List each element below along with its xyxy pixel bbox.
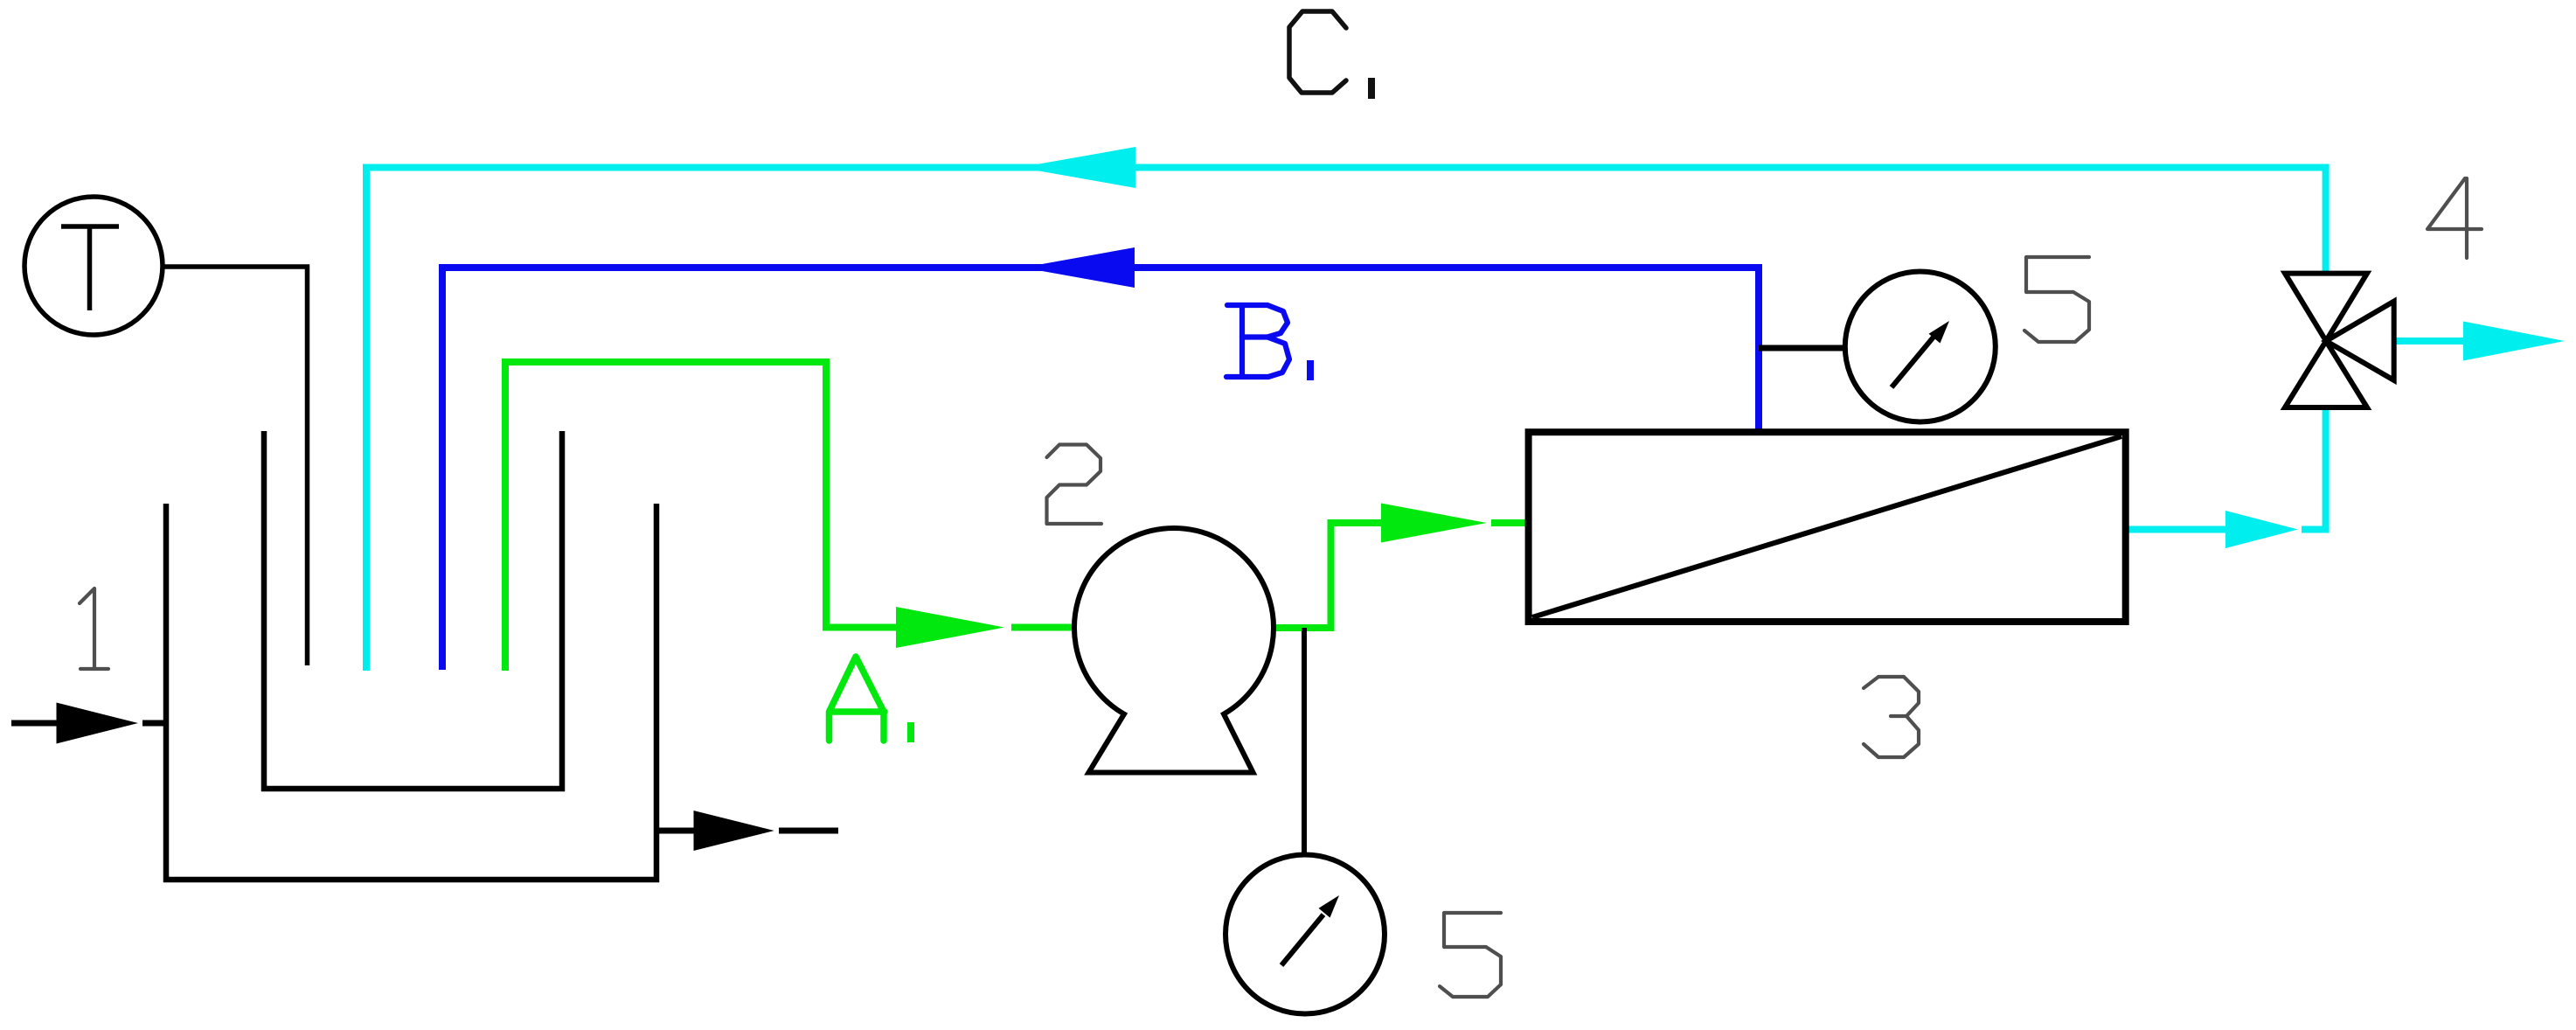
- label 4 (grey): [2427, 178, 2482, 258]
- inlet line into tank: [11, 720, 61, 727]
- valve 4 bottom triangle: [2285, 341, 2367, 407]
- wire: outlet stub after arrow: [779, 828, 838, 834]
- needle of top gauge: [1892, 335, 1935, 387]
- label 3 (grey): [1864, 677, 1919, 757]
- outlet line from tank: [656, 828, 694, 834]
- label A, (green): [830, 657, 885, 741]
- arrow on blue B line (pointing left): [1023, 247, 1135, 288]
- label 1 (grey): [80, 588, 108, 669]
- arrow outlet (pointing right): [694, 811, 774, 851]
- arrow green into membrane: [1381, 504, 1487, 543]
- label 5 top (grey): [2024, 257, 2089, 342]
- temperature gauge T1 circle: [24, 197, 163, 335]
- label C, (black): [1289, 11, 1346, 93]
- wire: green pump outlet to membrane: [1272, 523, 1381, 628]
- pump 2 body (circle with legs): [1074, 528, 1274, 773]
- valve 4 (three-way) top triangle: [2285, 274, 2367, 341]
- wire: green segment into membrane: [1491, 519, 1532, 526]
- wire: black connector from T gauge into tank (dip tube): [163, 267, 308, 665]
- wire: cyan permeate line membrane right to valve bottom: [2126, 526, 2225, 533]
- wire: black connector from blue line to top gauge: [1759, 345, 1845, 351]
- wire: cyan corner up into valve bottom: [2302, 407, 2326, 530]
- pressure gauge 5 (bottom) circle: [1226, 855, 1385, 1014]
- needle of bottom gauge: [1281, 915, 1323, 965]
- arrow cyan drain (pointing right, at image edge): [2463, 322, 2565, 361]
- arrow on cyan C line (pointing left): [1019, 147, 1135, 188]
- membrane module 3 rectangle: [1529, 432, 2126, 622]
- membrane diagonal: [1532, 436, 2121, 617]
- tank 1 outer jacket: [166, 504, 656, 880]
- label 2 (grey): [1047, 445, 1102, 525]
- wire: blue line B from membrane top to tank dip tube: [442, 268, 1759, 670]
- T glyph inside gauge: [61, 226, 119, 310]
- arrow inlet (pointing right): [57, 703, 139, 744]
- arrow cyan permeate (pointing right): [2225, 511, 2298, 548]
- tank 1 inner beaker: [264, 431, 562, 789]
- wire: cyan drain line from valve right: [2394, 338, 2465, 344]
- wire: green short segment arrow tip to pump: [1011, 624, 1076, 631]
- wire: cyan return line C from valve top to tank dip tube: [366, 168, 2326, 672]
- pressure gauge 5 (top) circle: [1845, 272, 1996, 422]
- wire: inlet stub to tank wall: [142, 720, 166, 727]
- wire: black tap from pump outlet down to gauge: [1302, 628, 1307, 854]
- valve 4 right triangle: [2326, 302, 2394, 380]
- arrow green into pump: [896, 607, 1004, 648]
- label 5 bottom (grey): [1440, 913, 1501, 997]
- label B, (blue): [1226, 305, 1289, 377]
- wire: green feed line A tank dip tube to pump: [505, 362, 896, 671]
